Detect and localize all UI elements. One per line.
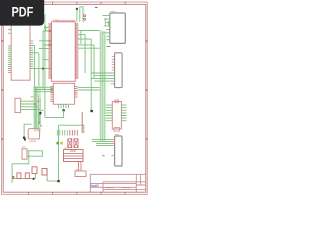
wire IC1 feed [103,16,109,33]
wire IC2 nets [91,73,114,84]
wire hat loop [80,7,83,22]
connector J1 [112,102,121,130]
component RB1 [75,171,86,177]
diode D4 [68,139,72,148]
diode D3 [25,173,29,179]
wire badge corner [44,26,48,32]
IC IC1 [110,13,126,43]
X1 bottom pins [59,104,69,108]
node junction A [42,67,44,69]
svg-text:ClassicDIY: ClassicDIY [91,184,99,188]
J1 left pins [106,105,113,121]
LED LED1 [56,142,59,145]
wire vertical r3 [90,39,92,110]
node gnd dot r3 [90,110,93,112]
op-amp U1 [11,18,30,80]
PDF badge [0,0,44,26]
node dot2 [33,178,35,180]
wire vertical v4 [44,14,46,117]
wire vertical v1 [34,46,36,86]
IC3 pin 5 [103,155,105,157]
component B1 [28,129,39,139]
wire X1 to band [78,88,100,90]
wire loop1 [27,151,42,157]
wire stubs into U2 left [39,31,52,60]
relay K1 [64,150,84,162]
IC2 stub pins [112,57,115,71]
U2 top pins [56,20,74,22]
component Q2 [42,169,47,176]
label JP1 [38,101,40,103]
label smudges [22,12,119,170]
X1 left pins [50,87,53,102]
connector X1 [53,83,74,104]
IC IC2 [115,53,123,88]
wire X1 down net [45,110,64,117]
J1 right pins [121,105,126,121]
node B1 gnd [23,137,25,139]
U2 left pins [48,24,51,78]
node X1 junction [62,109,65,112]
label mark [95,6,98,8]
label IC2 [107,46,111,48]
wire loop3 [35,168,47,181]
node gnd dot [57,180,60,182]
wire h125 [59,125,84,133]
wire IC3 nets [92,140,112,146]
wire bus band [100,31,106,142]
IC1 pins [106,16,110,40]
U1 left pins [8,30,11,34]
U1 right pins [30,41,33,43]
LED LED2 [60,142,63,145]
wire v58 [58,125,60,181]
wire h181 [47,180,57,182]
wire antenna arrow [76,9,78,22]
op-amp U2 [52,22,76,82]
label smudge [29,140,36,142]
title block [90,174,146,189]
wire B1 right [38,113,40,123]
wire loop2 [12,151,35,183]
wire band left [34,86,41,132]
X1 right pins [75,87,78,98]
resistor R2 [22,149,27,159]
wire net right r1 [78,31,100,49]
node dot [39,112,41,114]
wire CON1 nets [21,101,41,109]
diode D5 [74,139,78,148]
IC IC3 [115,136,122,166]
wire B1 left [24,124,32,136]
wire vertical v2 [38,53,40,129]
diode D1 [12,176,14,179]
title text marks [105,187,130,189]
label B1 [41,109,43,111]
wire vertical r2 [84,35,86,73]
component Q1 [32,167,37,174]
svg-text:PDF: PDF [12,4,34,20]
diode D2 [17,173,21,179]
wire X1 feed [34,87,54,91]
wire vertical r4 [93,45,95,79]
U2 right pins [75,24,78,78]
wire vertical v3 [42,31,44,90]
resistor network RN1 [57,130,67,136]
node dot3 [24,138,26,140]
pin circles P1 [84,15,86,17]
wire vertical r1 [80,31,82,45]
K1 stubs [79,162,82,172]
wire U1 to U2 net [30,46,52,69]
red vertical feed [81,112,83,133]
connector CON1 [15,98,21,112]
